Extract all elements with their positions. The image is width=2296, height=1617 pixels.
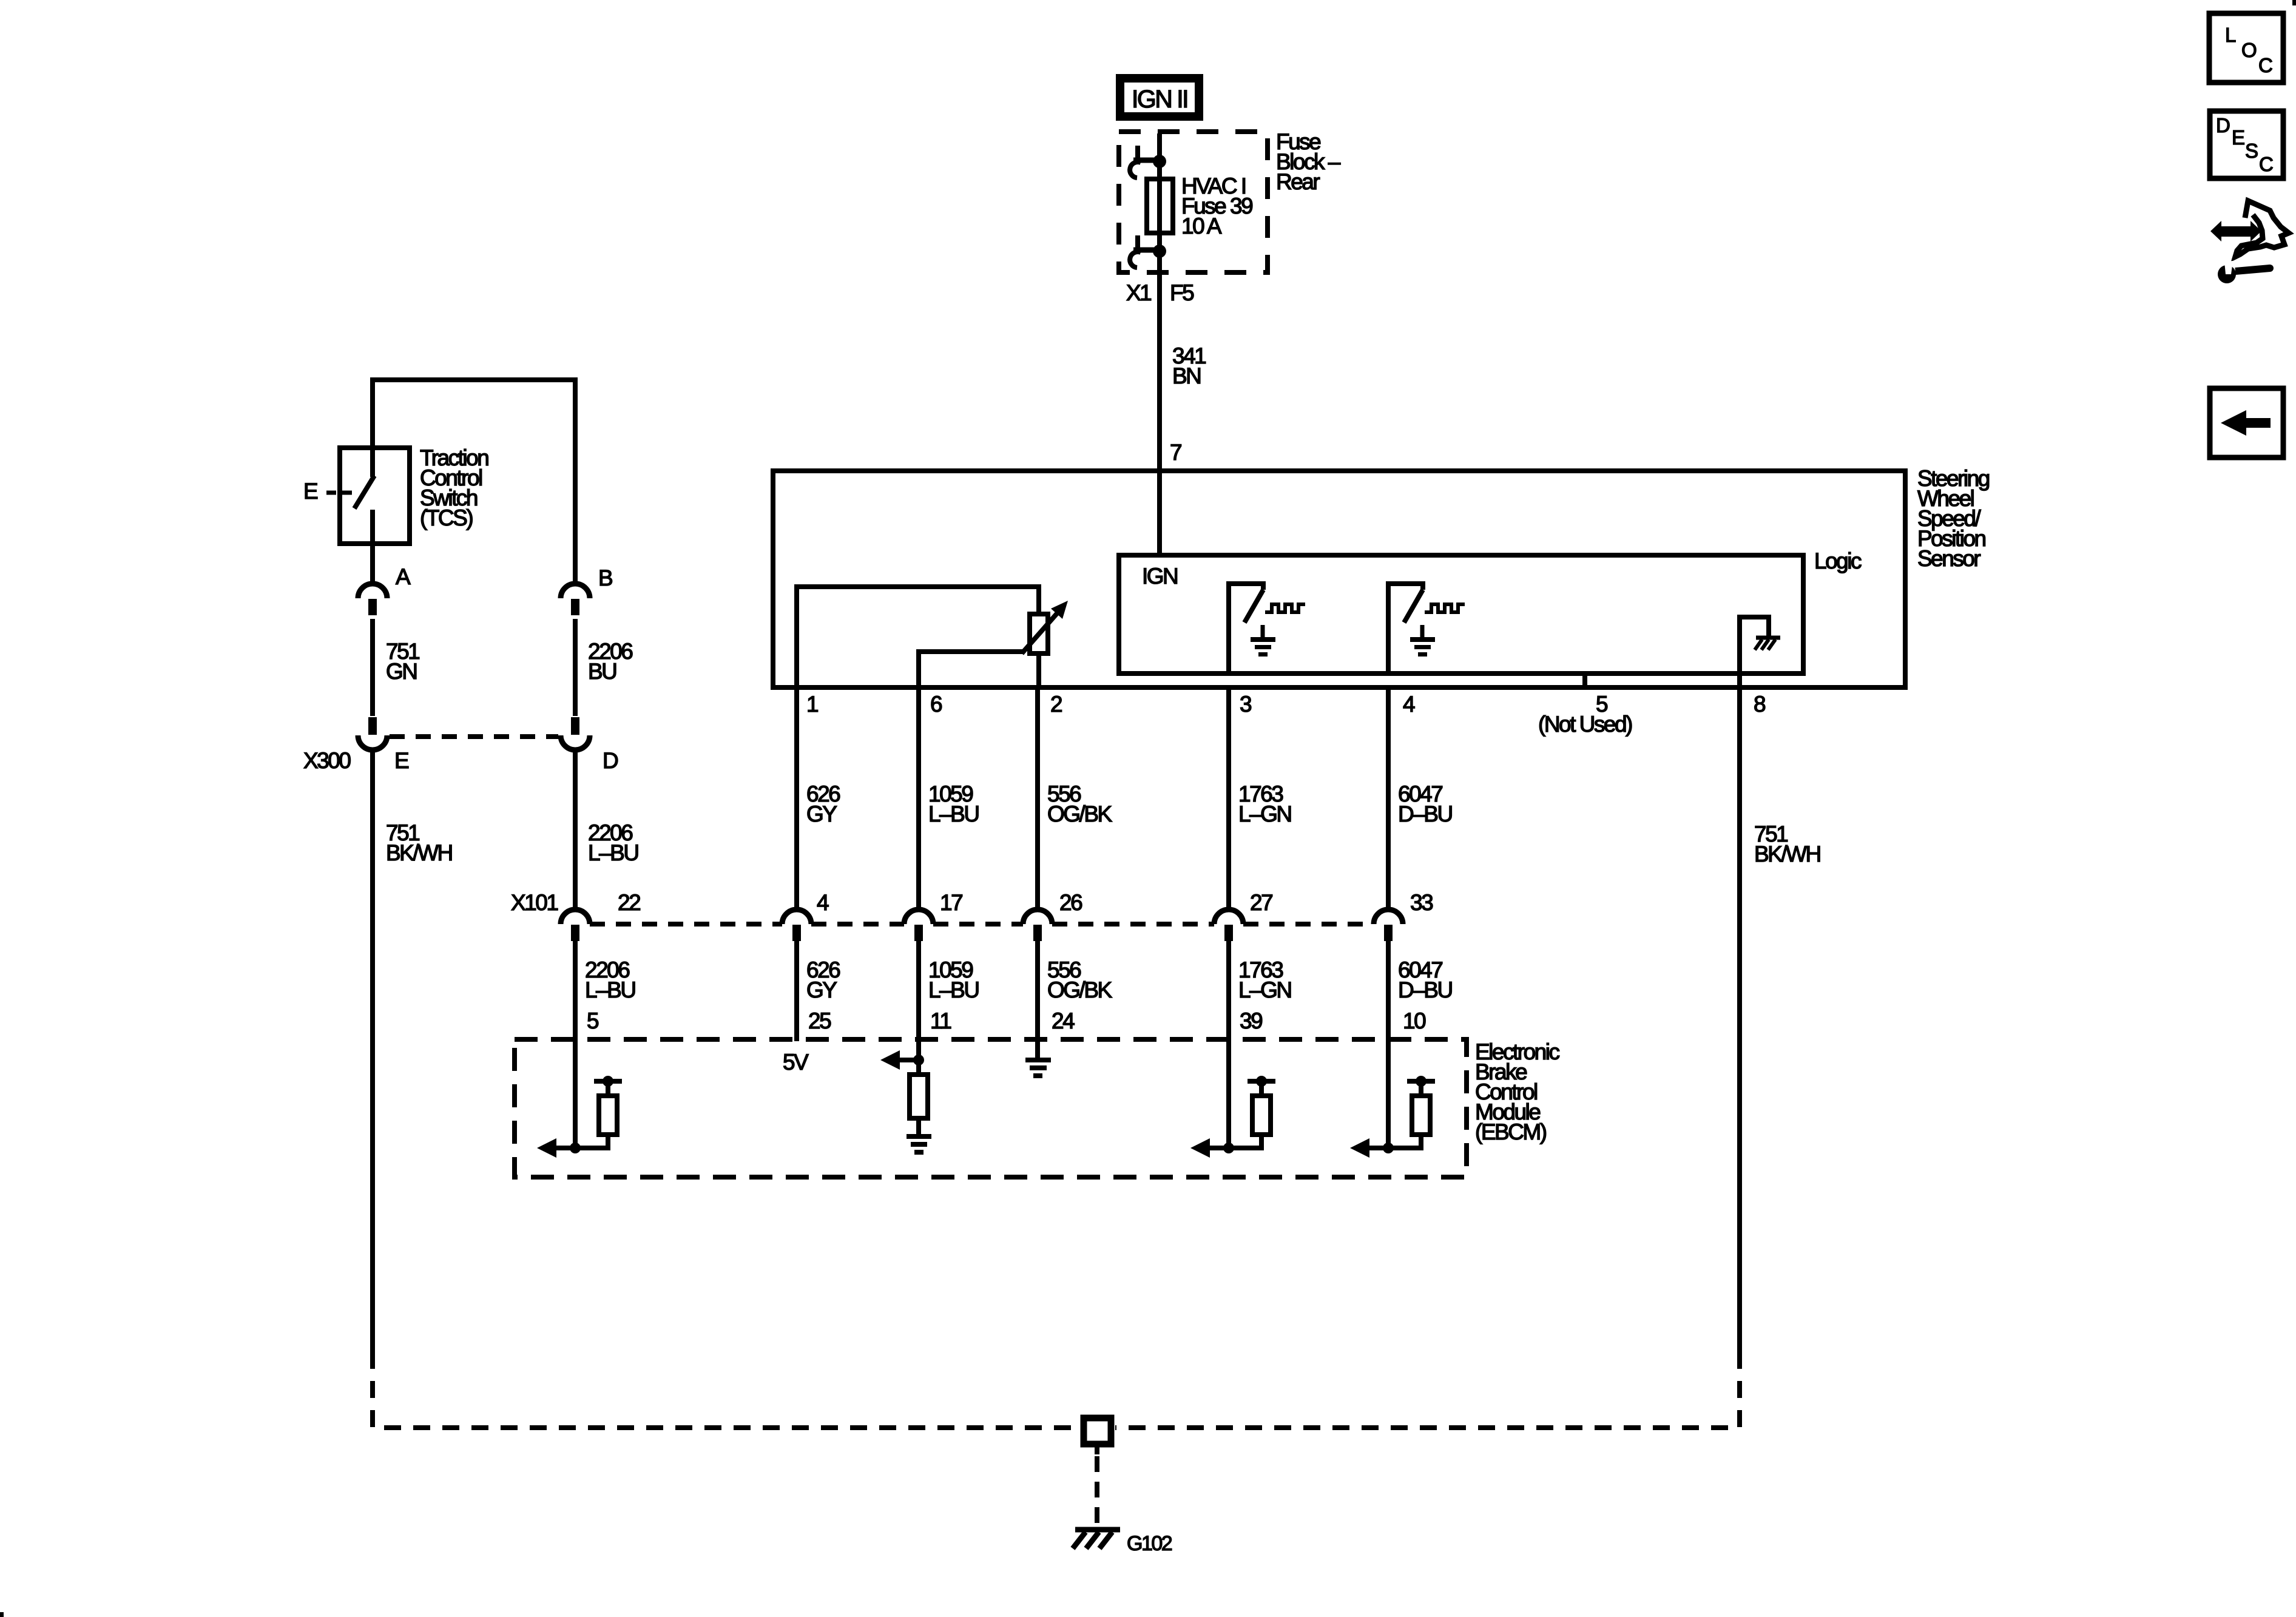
svg-text:7: 7 (1170, 440, 1181, 465)
svg-text:D–BU: D–BU (1398, 802, 1452, 826)
svg-text:OG/BK: OG/BK (1047, 977, 1113, 1002)
ground symbol pin 24 (1025, 1058, 1051, 1062)
back arrow (2221, 410, 2271, 436)
svg-text:5V: 5V (783, 1050, 809, 1075)
svg-text:IGN II: IGN II (1132, 85, 1187, 113)
svg-text:27: 27 (1250, 890, 1272, 915)
svg-text:L–GN: L–GN (1238, 802, 1291, 826)
switch contact lower wire to pin A (370, 510, 375, 584)
power feed tag IGN II (1116, 74, 1203, 121)
corner mark top right (2292, 0, 2296, 5)
X101 dashed link (590, 922, 782, 927)
pulse waveform A (1265, 604, 1305, 612)
svg-text:10: 10 (1403, 1008, 1426, 1033)
svg-text:4: 4 (817, 890, 829, 915)
svg-text:Sensor: Sensor (1917, 546, 1980, 571)
dashed drop to G102 (1095, 1447, 1099, 1454)
wire 751 BK/WH left (370, 750, 375, 1352)
signal arrow 11 (897, 1058, 919, 1062)
svg-text:E: E (2232, 126, 2244, 149)
splice box (1084, 1418, 1111, 1444)
logic inner box (1119, 555, 1803, 673)
connector terminal arc (1023, 910, 1052, 924)
svg-text:D: D (603, 748, 618, 773)
fuse F39 (1147, 179, 1173, 233)
wiper wire pin 6 (919, 652, 1024, 687)
svg-text:D–BU: D–BU (1398, 977, 1452, 1002)
tools icon probe outline (2235, 201, 2289, 257)
traction control switch box (340, 448, 410, 544)
pin 5 stub (not used) (1582, 673, 1587, 687)
ground symbol (switch A) (1261, 625, 1265, 638)
svg-text:BN: BN (1172, 363, 1200, 388)
junction node 5 (570, 1143, 581, 1153)
connector terminal arc (1214, 910, 1243, 924)
svg-text:(Not Used): (Not Used) (1538, 712, 1632, 737)
svg-text:OG/BK: OG/BK (1047, 802, 1113, 826)
fuse block dashed box (1119, 132, 1268, 272)
svg-text:17: 17 (940, 890, 962, 915)
wire 6047 D–BU upper (1386, 687, 1391, 910)
svg-text:X101: X101 (511, 890, 558, 915)
speed switch A (pin 3) (1229, 584, 1263, 673)
connector terminal arc (782, 910, 811, 924)
wire from IGN II through fuse to sensor pin 7 (1157, 133, 1162, 553)
ground symbol pin 11 (907, 1134, 931, 1139)
svg-text:B: B (598, 565, 612, 590)
back arrow box (2210, 388, 2283, 457)
wire 2206 L-BU upper (573, 750, 578, 910)
wire resistor-to-junction 39 (1232, 1135, 1261, 1148)
dashed ground wire right (1115, 1352, 1740, 1428)
svg-text:C: C (2259, 153, 2273, 175)
svg-text:F5: F5 (1170, 280, 1194, 305)
svg-text:E: E (394, 748, 409, 773)
tools icon double arrow (2210, 221, 2261, 241)
wire resistor-to-junction 5 (579, 1135, 608, 1148)
resistor (pull-up) at pin 5 (594, 1079, 622, 1084)
wiper arrow (1022, 613, 1057, 653)
wire 751 GN (370, 619, 375, 716)
DESC nav box (2210, 111, 2283, 178)
svg-text:33: 33 (1410, 890, 1433, 915)
connector terminal arc (561, 910, 590, 924)
switch contact upper (370, 448, 375, 477)
svg-text:(EBCM): (EBCM) (1475, 1119, 1547, 1144)
svg-text:BK/WH: BK/WH (1754, 842, 1820, 866)
svg-text:IGN: IGN (1142, 564, 1177, 589)
fuse terminal hook bottom (1135, 235, 1140, 249)
svg-text:A: A (396, 564, 411, 589)
svg-text:10 A: 10 A (1181, 214, 1222, 238)
svg-text:11: 11 (930, 1008, 951, 1033)
svg-text:E: E (303, 479, 318, 504)
steering wheel speed/position sensor box (773, 471, 1905, 687)
svg-text:GY: GY (806, 802, 837, 826)
LOC nav box (2209, 13, 2283, 83)
svg-text:3: 3 (1240, 692, 1251, 717)
connector terminal arc (571, 717, 579, 735)
svg-text:4: 4 (1403, 692, 1415, 717)
svg-text:2: 2 (1050, 692, 1062, 717)
tools icon wrench (2218, 265, 2236, 283)
svg-text:O: O (2241, 39, 2257, 61)
svg-text:C: C (2258, 54, 2272, 76)
wire 626 GY upper (794, 687, 799, 910)
svg-text:S: S (2245, 140, 2258, 162)
svg-text:39: 39 (1240, 1008, 1262, 1033)
wire 626 GY lower (794, 941, 799, 1041)
svg-text:GY: GY (806, 977, 837, 1002)
potentiometer sub-box (797, 587, 1039, 685)
signal arrow 5 (554, 1146, 575, 1150)
svg-text:X300: X300 (303, 748, 351, 773)
resistor (pull-down) pin 11 (916, 1060, 921, 1075)
svg-text:L–BU: L–BU (585, 977, 635, 1002)
svg-text:26: 26 (1059, 890, 1082, 915)
pin 8 internal chassis ground (1740, 617, 1769, 687)
X300 dashed link (390, 734, 558, 739)
connector terminal arc (368, 717, 377, 735)
EBCM dashed box (515, 1039, 1467, 1177)
wire 556 OG/BK lower (1035, 941, 1040, 1059)
wire 1059 L–BU upper (916, 687, 921, 910)
connector terminal arc (561, 584, 590, 598)
svg-text:Rear: Rear (1276, 169, 1320, 194)
dashed ground wire left (373, 1352, 1079, 1428)
connector terminal arc (904, 910, 933, 924)
ground symbol (switch B) (1420, 625, 1425, 638)
junction node 11 (913, 1055, 924, 1065)
svg-text:Logic: Logic (1814, 549, 1862, 573)
svg-text:BU: BU (588, 659, 616, 684)
svg-text:5: 5 (587, 1008, 599, 1033)
resistor (pull-up) at pin 10 (1407, 1079, 1435, 1084)
junction node 10 (1383, 1143, 1394, 1153)
svg-text:6: 6 (930, 692, 942, 717)
wire 2206 BU (573, 619, 578, 716)
svg-text:(TCS): (TCS) (420, 505, 473, 530)
junction node 39 (1223, 1143, 1234, 1153)
connector terminal arc (1374, 910, 1403, 924)
svg-text:D: D (2216, 114, 2230, 137)
svg-text:L–BU: L–BU (588, 840, 638, 865)
svg-text:24: 24 (1052, 1008, 1075, 1033)
TCS feed loop wire (373, 380, 575, 584)
wire resistor-to-junction 10 (1392, 1135, 1421, 1148)
fuse terminal hook top (1135, 146, 1140, 159)
corner mark bottom left (0, 1612, 4, 1617)
potentiometer R (1030, 614, 1048, 653)
wire 1763 L–GN upper (1226, 687, 1231, 910)
svg-text:BK/WH: BK/WH (386, 840, 452, 865)
svg-text:L–BU: L–BU (928, 977, 979, 1002)
svg-text:25: 25 (808, 1008, 831, 1033)
wire pin 11 inside EBCM (916, 941, 921, 1060)
wire pin 39 inside EBCM (1226, 941, 1231, 1148)
signal arrow 10 (1367, 1146, 1388, 1150)
wire pin 5 inside EBCM (573, 941, 578, 1148)
wire 751 BK/WH right (1737, 687, 1742, 1352)
wire 556 OG/BK upper (1035, 687, 1040, 910)
chassis ground G102 (1075, 1527, 1120, 1533)
svg-text:L–BU: L–BU (928, 802, 979, 826)
svg-text:X1: X1 (1126, 280, 1151, 305)
speed switch B (pin 4) (1388, 584, 1423, 673)
wire pin 10 inside EBCM (1386, 941, 1391, 1148)
pulse waveform B (1425, 604, 1465, 612)
switch blade (354, 476, 374, 508)
connector terminal arc (358, 584, 387, 598)
svg-text:GN: GN (386, 659, 417, 684)
svg-text:22: 22 (618, 890, 640, 915)
svg-text:G102: G102 (1127, 1532, 1172, 1555)
signal arrow 39 (1207, 1146, 1229, 1150)
svg-text:1: 1 (806, 692, 818, 717)
svg-text:L: L (2225, 24, 2236, 46)
svg-text:L–GN: L–GN (1238, 977, 1291, 1002)
resistor (pull-up) at pin 39 (1248, 1079, 1275, 1084)
svg-text:8: 8 (1754, 692, 1765, 717)
